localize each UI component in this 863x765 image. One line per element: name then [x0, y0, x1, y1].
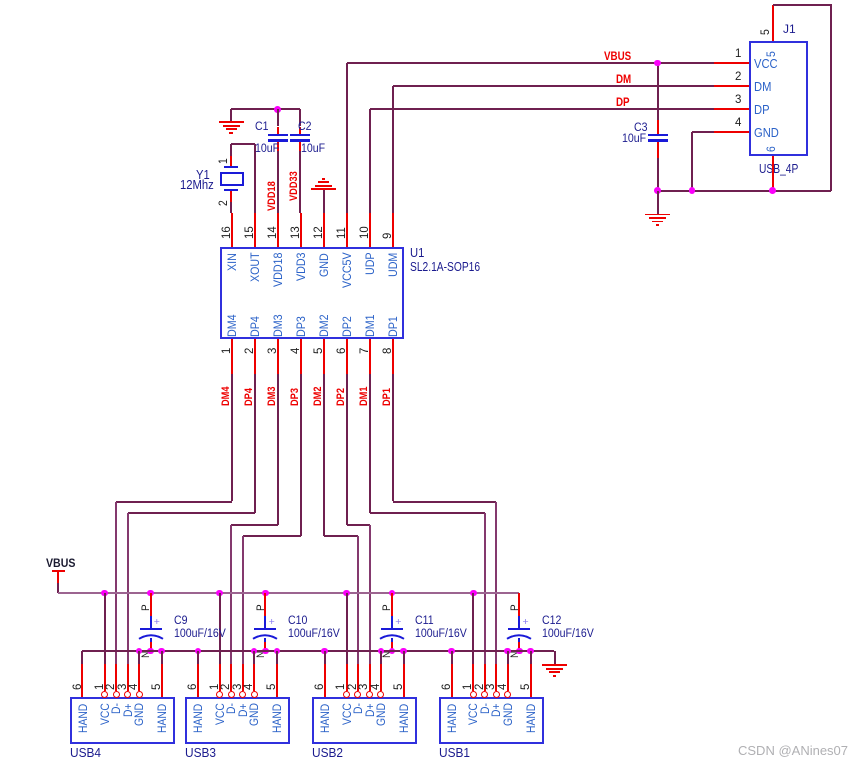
junction GND USB2 pin5 — [0, 0, 1, 1]
USB3 pin number 5 — [0, 0, 1, 1]
label C2 value — [0, 0, 1, 1]
USB4 pin circle at x=139 — [0, 0, 1, 1]
USB3 pin name D+ (pin 3) — [0, 0, 1, 1]
USB1 pin 6 drop — [0, 0, 1, 1]
label USB2 — [0, 0, 1, 1]
J1 pin 6 name (inside) — [0, 0, 1, 1]
U1 pin number 8 — [0, 0, 1, 1]
USB3 pin number 6 — [0, 0, 1, 1]
wire DP3 (U1 pin 4 to USB port) — [0, 0, 1, 1]
label C3 — [0, 0, 1, 1]
capacitor C11 — [0, 0, 1, 1]
USB1 pin number 4 — [0, 0, 1, 1]
ground (U1 pin 12) — [0, 0, 1, 1]
label C11 P — [0, 0, 1, 1]
U1 pin 1 stub — [0, 0, 1, 1]
USB4 pin number 2 — [0, 0, 1, 1]
USB3 pin number 4 — [0, 0, 1, 1]
USB3 pin name GND (pin 4) — [0, 0, 1, 1]
U1 pin 15 stub — [0, 0, 1, 1]
USB1 pin number 2 — [0, 0, 1, 1]
junction GND USB2 pin4 — [0, 0, 1, 1]
U1 pin number 4 — [0, 0, 1, 1]
junction GND USB3 pin4 — [0, 0, 1, 1]
junction C1 top — [0, 0, 1, 1]
label C10 N — [0, 0, 1, 1]
label USB4 — [0, 0, 1, 1]
wire J1 pin 4 to ground — [0, 0, 1, 1]
capacitor C12 — [0, 0, 1, 1]
wire USB2 VCC drop — [0, 0, 1, 1]
label C3 value — [0, 0, 1, 1]
U1 pin 2 stub — [0, 0, 1, 1]
U1 pin 16 stub — [0, 0, 1, 1]
junction GND USB1 pin5 — [0, 0, 1, 1]
J1 pin number 4 — [0, 0, 1, 1]
USB1 pin circle at x=484.7 — [0, 0, 1, 1]
USB4 pin name HAND (pin 6) — [0, 0, 1, 1]
USB4 pin circle at x=104.5 — [0, 0, 1, 1]
junction GND C12 — [0, 0, 1, 1]
wire Y1 pin1 to XOUT — [0, 0, 1, 1]
J1 pin 5 name (inside) — [0, 0, 1, 1]
crystal pin number 1 — [0, 0, 1, 1]
USB2 pin 6 drop — [0, 0, 1, 1]
junction GND C11 — [0, 0, 1, 1]
junction GND C10 — [0, 0, 1, 1]
junction GND USB1 pin6 — [0, 0, 1, 1]
wire DP2 (U1 pin 6 to USB port) — [0, 0, 1, 1]
U1 pin number 16 — [0, 0, 1, 1]
USB2 pin circle at x=357.9 — [0, 0, 1, 1]
U1 pin number 5 — [0, 0, 1, 1]
J1 pin 5 stub — [0, 0, 1, 1]
USB1 pin number 6 — [0, 0, 1, 1]
USB4 pin circle at x=116 — [0, 0, 1, 1]
U1 pin 4 stub — [0, 0, 1, 1]
net label VDD33 — [0, 0, 1, 1]
U1 pin 10 stub — [0, 0, 1, 1]
USB1 pin circle at x=507.7 — [0, 0, 1, 1]
USB1 pin number 1 — [0, 0, 1, 1]
USB4 pin name GND (pin 4) — [0, 0, 1, 1]
label U1 — [0, 0, 1, 1]
USB1 pin number 5 — [0, 0, 1, 1]
connector USB1 box — [0, 0, 1, 1]
wire DM4 (U1 pin 1 to USB port) — [0, 0, 1, 1]
label C9 P — [0, 0, 1, 1]
J1 pin 2 DM name — [0, 0, 1, 1]
op-amp U1 body — [0, 0, 1, 1]
U1 pin number 13 — [0, 0, 1, 1]
connector USB4 box — [0, 0, 1, 1]
J1 pin 4 GND name — [0, 0, 1, 1]
label C12 N — [0, 0, 1, 1]
USB3 pin name D- (pin 2) — [0, 0, 1, 1]
label C10 value — [0, 0, 1, 1]
capacitor C1 — [0, 0, 1, 1]
capacitor C10 — [0, 0, 1, 1]
label C9 — [0, 0, 1, 1]
U1 pin 3 stub — [0, 0, 1, 1]
label C1 — [0, 0, 1, 1]
USB2 pin number 6 — [0, 0, 1, 1]
junction VBUS USB4 VCC — [0, 0, 1, 1]
U1 pin name VDD3 — [0, 0, 1, 1]
USB1 pin number 3 — [0, 0, 1, 1]
wire DM1 (U1 pin 7 to USB port) — [0, 0, 1, 1]
USB1 pin name D+ (pin 3) — [0, 0, 1, 1]
wire USB3 VCC drop — [0, 0, 1, 1]
label USB_4P — [0, 0, 1, 1]
USB2 pin circle at x=346.4 — [0, 0, 1, 1]
label C10 P — [0, 0, 1, 1]
wire VBUS rail — [0, 0, 1, 1]
U1 pin number 6 — [0, 0, 1, 1]
USB3 pin circle at x=219.6 — [0, 0, 1, 1]
U1 pin 13 stub — [0, 0, 1, 1]
junction GND USB4 pin5 — [0, 0, 1, 1]
label C9 value — [0, 0, 1, 1]
junction C3 top — [0, 0, 1, 1]
USB4 pin number 3 — [0, 0, 1, 1]
U1 pin number 11 — [0, 0, 1, 1]
USB2 pin name VCC (pin 1) — [0, 0, 1, 1]
wire J1 shield loop — [0, 0, 1, 1]
connector USB3 box — [0, 0, 1, 1]
label C1 value — [0, 0, 1, 1]
wire decoupling ground top — [0, 0, 1, 1]
USB2 pin name HAND (pin 5) — [0, 0, 1, 1]
USB3 pin 4 drop — [0, 0, 1, 1]
USB2 pin number 1 — [0, 0, 1, 1]
USB4 pin name D+ (pin 3) — [0, 0, 1, 1]
U1 pin name UDP — [0, 0, 1, 1]
junction GND J1 pin6 — [0, 0, 1, 1]
junction VBUS USB2 VCC — [0, 0, 1, 1]
USB1 pin 5 drop — [0, 0, 1, 1]
capacitor C3 — [0, 0, 1, 1]
U1 pin 12 stub — [0, 0, 1, 1]
J1 pin number 2 — [0, 0, 1, 1]
USB4 pin circle at x=127.5 — [0, 0, 1, 1]
U1 pin name DM2 — [0, 0, 1, 1]
J1 pin number 3 — [0, 0, 1, 1]
junction VBUS C9 — [0, 0, 1, 1]
wire GND rail — [0, 0, 1, 1]
USB3 pin 6 drop — [0, 0, 1, 1]
USB4 pin number 6 — [0, 0, 1, 1]
USB3 pin circle at x=254.1 — [0, 0, 1, 1]
U1 pin name DM1 — [0, 0, 1, 1]
USB2 pin 5 drop — [0, 0, 1, 1]
label C12 — [0, 0, 1, 1]
J1 pin 5 number (outside) — [0, 0, 1, 1]
watermark — [0, 0, 1, 1]
wire DM3 (U1 pin 3 to USB port) — [0, 0, 1, 1]
USB4 pin name D- (pin 2) — [0, 0, 1, 1]
connector J1 box — [0, 0, 1, 1]
junction C3 bottom — [0, 0, 1, 1]
USB4 pin number 1 — [0, 0, 1, 1]
U1 pin name DP2 — [0, 0, 1, 1]
USB3 pin number 3 — [0, 0, 1, 1]
wire ground bus right — [0, 0, 1, 1]
USB1 pin circle at x=473.2 — [0, 0, 1, 1]
crystal pin number 2 — [0, 0, 1, 1]
label USB1 — [0, 0, 1, 1]
USB1 pin circle at x=496.2 — [0, 0, 1, 1]
U1 pin name DP3 — [0, 0, 1, 1]
wire DP (U1 pin 10 to J1 pin 3) — [0, 0, 1, 1]
junction VBUS USB1 VCC — [0, 0, 1, 1]
USB2 pin name GND (pin 4) — [0, 0, 1, 1]
junction GND USB3 pin6 — [0, 0, 1, 1]
USB1 pin 4 drop — [0, 0, 1, 1]
U1 pin name VDD18 — [0, 0, 1, 1]
wire USB1 VCC drop — [0, 0, 1, 1]
USB1 pin name HAND (pin 6) — [0, 0, 1, 1]
net label DP3 — [0, 0, 1, 1]
U1 pin 7 stub — [0, 0, 1, 1]
U1 pin name XIN — [0, 0, 1, 1]
net label DP — [0, 0, 1, 1]
junction GND USB4 pin4 — [0, 0, 1, 1]
J1 pin number 1 — [0, 0, 1, 1]
connector USB2 box — [0, 0, 1, 1]
USB4 pin number 4 — [0, 0, 1, 1]
net label VBUS — [0, 0, 1, 1]
net label VDD18 — [0, 0, 1, 1]
U1 pin name UDM — [0, 0, 1, 1]
ground (top left) — [0, 0, 1, 1]
U1 pin number 1 — [0, 0, 1, 1]
label J1 — [0, 0, 1, 1]
USB3 pin name HAND (pin 5) — [0, 0, 1, 1]
wire DM2 (U1 pin 5 to USB port) — [0, 0, 1, 1]
USB2 pin circle at x=380.9 — [0, 0, 1, 1]
label C12 P — [0, 0, 1, 1]
U1 pin name DM4 — [0, 0, 1, 1]
junction VBUS C10 — [0, 0, 1, 1]
U1 pin 5 stub — [0, 0, 1, 1]
net label DM — [0, 0, 1, 1]
net label DP2 — [0, 0, 1, 1]
USB2 pin number 4 — [0, 0, 1, 1]
USB3 pin circle at x=231.1 — [0, 0, 1, 1]
USB4 pin number 5 — [0, 0, 1, 1]
U1 pin number 9 — [0, 0, 1, 1]
U1 pin number 15 — [0, 0, 1, 1]
label USB3 — [0, 0, 1, 1]
USB1 pin name VCC (pin 1) — [0, 0, 1, 1]
power port VBUS — [0, 0, 1, 1]
USB4 pin name HAND (pin 5) — [0, 0, 1, 1]
label Y1 — [0, 0, 1, 1]
USB3 pin 5 drop — [0, 0, 1, 1]
wire VBUS (U1 pin 11 to J1 pin 1) — [0, 0, 1, 1]
USB1 pin name D- (pin 2) — [0, 0, 1, 1]
wire USB4 VCC drop — [0, 0, 1, 1]
capacitor C9 — [0, 0, 1, 1]
USB3 pin number 2 — [0, 0, 1, 1]
U1 pin name XOUT — [0, 0, 1, 1]
capacitor C2 — [0, 0, 1, 1]
junction VBUS C11 — [0, 0, 1, 1]
USB3 pin circle at x=242.6 — [0, 0, 1, 1]
ground (below C3) — [0, 0, 1, 1]
net label DP4 — [0, 0, 1, 1]
net label DM4 — [0, 0, 1, 1]
label C10 — [0, 0, 1, 1]
net label DM3 — [0, 0, 1, 1]
wire DP4 (U1 pin 2 to USB port) — [0, 0, 1, 1]
U1 pin 9 stub — [0, 0, 1, 1]
junction GND C9 — [0, 0, 1, 1]
U1 pin name GND — [0, 0, 1, 1]
junction GND USB2 pin6 — [0, 0, 1, 1]
net label DP1 — [0, 0, 1, 1]
junction GND J1 pin4 — [0, 0, 1, 1]
wire DP1 (U1 pin 8 to USB port) — [0, 0, 1, 1]
USB3 pin number 1 — [0, 0, 1, 1]
junction GND USB1 pin4 — [0, 0, 1, 1]
J1 pin 1 VCC name — [0, 0, 1, 1]
U1 pin 6 stub — [0, 0, 1, 1]
USB2 pin name HAND (pin 6) — [0, 0, 1, 1]
junction GND USB3 pin5 — [0, 0, 1, 1]
USB4 pin 4 drop — [0, 0, 1, 1]
U1 pin 14 stub — [0, 0, 1, 1]
label C12 value — [0, 0, 1, 1]
net label DM1 — [0, 0, 1, 1]
U1 pin name DP4 — [0, 0, 1, 1]
junction VBUS USB3 VCC — [0, 0, 1, 1]
USB1 pin name HAND (pin 5) — [0, 0, 1, 1]
label C11 — [0, 0, 1, 1]
USB2 pin name D+ (pin 3) — [0, 0, 1, 1]
USB4 pin 5 drop — [0, 0, 1, 1]
label C2 — [0, 0, 1, 1]
USB2 pin number 2 — [0, 0, 1, 1]
U1 pin number 3 — [0, 0, 1, 1]
U1 pin name VCC5V — [0, 0, 1, 1]
net label DM2 — [0, 0, 1, 1]
crystal Y1 — [0, 0, 1, 1]
USB1 pin name GND (pin 4) — [0, 0, 1, 1]
U1 pin number 14 — [0, 0, 1, 1]
USB2 pin circle at x=369.4 — [0, 0, 1, 1]
label Y1 value — [0, 0, 1, 1]
label C11 value — [0, 0, 1, 1]
U1 pin name DP1 — [0, 0, 1, 1]
J1 pin 6 stub — [0, 0, 1, 1]
USB3 pin name VCC (pin 1) — [0, 0, 1, 1]
USB4 pin name VCC (pin 1) — [0, 0, 1, 1]
USB3 pin name HAND (pin 6) — [0, 0, 1, 1]
U1 pin 11 stub — [0, 0, 1, 1]
label C9 N — [0, 0, 1, 1]
ground (bottom right) — [0, 0, 1, 1]
U1 pin name DM3 — [0, 0, 1, 1]
USB2 pin number 5 — [0, 0, 1, 1]
USB2 pin name D- (pin 2) — [0, 0, 1, 1]
label C11 N — [0, 0, 1, 1]
label U1 part number — [0, 0, 1, 1]
USB2 pin number 3 — [0, 0, 1, 1]
USB2 pin 4 drop — [0, 0, 1, 1]
U1 pin number 2 — [0, 0, 1, 1]
U1 pin number 10 — [0, 0, 1, 1]
U1 pin number 7 — [0, 0, 1, 1]
wire DM (U1 pin 9 to J1 pin 2) — [0, 0, 1, 1]
U1 pin number 12 — [0, 0, 1, 1]
J1 pin 3 DP name — [0, 0, 1, 1]
U1 pin 8 stub — [0, 0, 1, 1]
